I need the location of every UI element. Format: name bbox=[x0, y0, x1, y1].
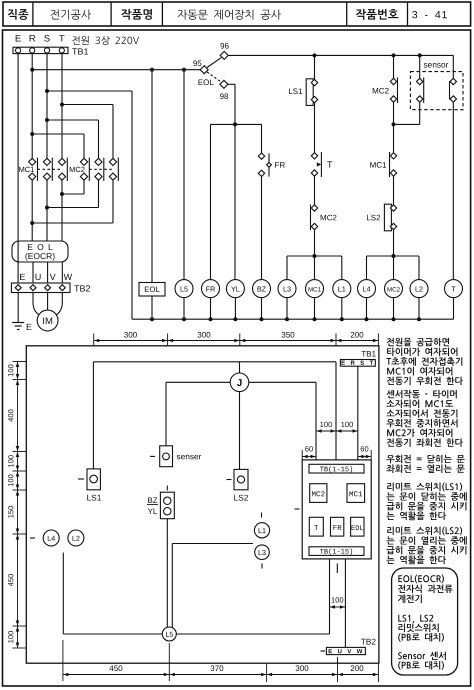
wire L1 to rail bbox=[341, 298, 343, 320]
node MC2 coil junction bbox=[392, 254, 396, 258]
buzzer/lamp unit BZ YL (panel) bbox=[160, 486, 174, 519]
wire sensor parallel link bbox=[394, 123, 420, 125]
wire L3 drop bbox=[286, 256, 288, 280]
limit switch LS2 (panel) bbox=[227, 469, 249, 489]
node rail junction FR bbox=[209, 317, 213, 321]
relay module EOL (panel) bbox=[351, 517, 364, 536]
buzzer BZ (control row) bbox=[253, 280, 271, 298]
label TB1 (panel) bbox=[361, 351, 375, 357]
relay EOL block (control row) bbox=[139, 70, 165, 296]
node rail junction MC1 bbox=[313, 317, 317, 321]
label senser bbox=[177, 455, 201, 460]
wire sensor contact upper bbox=[419, 55, 421, 78]
wire L3 to rail bbox=[286, 298, 288, 320]
wire MC1 pole3 output down bbox=[61, 180, 63, 241]
induction motor IM bbox=[37, 310, 58, 331]
coil MC1 (control row) bbox=[306, 280, 324, 298]
panel enclosure outline bbox=[26, 346, 379, 663]
wire control feed from R at y=69.7 bbox=[32, 69, 200, 71]
wire branch MC2 upper bbox=[393, 55, 395, 78]
label MC2-a contact bbox=[373, 88, 389, 94]
terminal block TB2 bbox=[11, 283, 70, 293]
overload relay EOL (EOCR) bbox=[12, 241, 68, 262]
sensor dashed box bbox=[410, 72, 463, 110]
contactor MC2 pole 1 bbox=[80, 158, 89, 181]
wire panel top bus bbox=[93, 361, 336, 363]
lamp L2 (control row) bbox=[410, 280, 428, 298]
limit switch LS2 contact bbox=[384, 204, 396, 231]
label T contact bbox=[327, 161, 332, 167]
wire E phase down (TB1-E to TB2-E) bbox=[17, 54, 19, 283]
wire J to senser bbox=[166, 382, 230, 446]
label LS1 (panel) bbox=[87, 495, 101, 501]
label E at ground bbox=[27, 324, 32, 330]
label MC1 contactor bbox=[19, 167, 34, 172]
wire J to TB block bbox=[249, 382, 316, 460]
wire BZ to rail bbox=[261, 298, 263, 320]
ground symbol bbox=[12, 323, 24, 330]
wire BZ-YL to L5 bbox=[166, 519, 168, 628]
title block header table frame bbox=[3, 2, 471, 26]
coil MC2 (control row) bbox=[385, 280, 403, 298]
notes text column (operation description) bbox=[386, 338, 466, 565]
header cell label 직종 bbox=[8, 9, 29, 20]
EOL switch arm 95-96 bbox=[207, 58, 221, 68]
node rail junction BZ bbox=[260, 317, 264, 321]
wire MC1 pole2 output down bbox=[46, 180, 48, 241]
node crossover T-output bbox=[60, 192, 64, 196]
label TB2 (panel) bbox=[361, 639, 376, 645]
lamp L1 (panel) bbox=[254, 513, 269, 538]
EOL trip contact 95 bbox=[200, 66, 208, 74]
coil T (control row) bbox=[445, 280, 463, 298]
wire L4 drop bbox=[366, 256, 368, 280]
limit switch LS1 contact bbox=[306, 79, 318, 106]
terminal labels E R S T of TB1 bbox=[16, 35, 65, 42]
wire ERST to TB block bbox=[357, 366, 359, 460]
wire L1 drop bbox=[341, 256, 343, 280]
EOL trip contact 98 bbox=[220, 80, 228, 88]
contactor module MC2 (panel) bbox=[310, 484, 327, 503]
node top rail sensor tap bbox=[418, 53, 422, 57]
contactor MC2 pole 3 bbox=[109, 158, 118, 181]
wire control return from S bbox=[47, 91, 132, 319]
wire L4 to rail bbox=[366, 298, 368, 320]
wire MC2a to MC1b bbox=[393, 103, 395, 153]
dimension 100/100 above TB block bbox=[316, 422, 358, 433]
node rail junction L1 bbox=[340, 317, 344, 321]
node R tap bbox=[30, 132, 34, 136]
node L5 lamp drop tap bbox=[182, 68, 186, 72]
node FR bus junction bbox=[233, 122, 237, 126]
lamp L2 (panel) bbox=[68, 530, 84, 546]
wire MC1b to LS2 bbox=[393, 177, 395, 205]
wire S phase to MC2 pole2 bbox=[47, 120, 99, 158]
wire TB2-E to ground bbox=[17, 293, 19, 323]
wire T to rail bbox=[453, 298, 455, 320]
wire R phase down (TB1-R to MC1 pole1) bbox=[31, 54, 33, 159]
lamp L3 (control row) bbox=[278, 280, 296, 298]
legend box outline bbox=[392, 568, 458, 675]
tick left of TB block bbox=[295, 508, 300, 510]
wire EOL block to rail bbox=[151, 296, 153, 319]
wire MC1 pole1 output down bbox=[31, 180, 33, 241]
sensor unit senser (panel) bbox=[150, 446, 173, 467]
wire L3 to L5 bbox=[172, 544, 253, 629]
label 전원 3상 220V bbox=[72, 36, 139, 45]
label BZ bbox=[147, 497, 158, 504]
wire sensor right terminal upper bbox=[452, 55, 454, 78]
dimension 60 right above TB block bbox=[358, 446, 371, 460]
mechanical linkage MC1 bbox=[38, 168, 63, 170]
dimension line bottom of panel (450/370/300/200) bbox=[63, 640, 379, 682]
node MC1 coil junction bbox=[313, 254, 317, 258]
node rail junction L2 bbox=[417, 317, 421, 321]
lamp L1 (control row) bbox=[333, 280, 351, 298]
node crossover R-output bbox=[30, 221, 34, 225]
wire 98 to FR bus bbox=[228, 84, 235, 124]
wire bus to TB block bbox=[335, 362, 337, 460]
header cell label 작품명 bbox=[121, 9, 152, 20]
contactor module MC1 (panel) bbox=[347, 484, 365, 503]
label LS1 contact bbox=[289, 88, 302, 94]
node crossover S-output bbox=[45, 206, 49, 210]
wire L2 to rail bbox=[418, 298, 420, 320]
wire TB2-V to motor bbox=[47, 293, 49, 311]
wire sensor contact lower bbox=[419, 103, 421, 125]
label strip TB(1-15) bottom bbox=[309, 547, 364, 556]
wire L5 feed bbox=[183, 70, 185, 280]
wire YL lamp drop bbox=[234, 124, 236, 279]
terminal block assembly TB(1-15) bbox=[302, 460, 371, 559]
node sensor parallel junction bbox=[392, 122, 396, 126]
dimension 60 left above TB block bbox=[302, 446, 316, 460]
wire FR contact to BZ bbox=[261, 177, 263, 280]
node rail junction L3 bbox=[285, 317, 289, 321]
wire top rail from 96 bbox=[228, 54, 453, 56]
wire MC2 to rail bbox=[393, 298, 395, 320]
terminal block TB1 bbox=[13, 47, 68, 53]
wire TB2-W to motor bbox=[55, 293, 62, 316]
node S control return tap bbox=[45, 89, 49, 93]
label LS2 contact bbox=[367, 215, 380, 221]
wire T contact to MC2b bbox=[314, 177, 316, 205]
node R control tap bbox=[30, 68, 34, 72]
lamp L5 (panel) bbox=[162, 627, 176, 641]
legend box text bbox=[398, 575, 453, 670]
interlock contact MC2-b bbox=[311, 205, 318, 231]
contactor MC1 pole 2 bbox=[43, 158, 52, 181]
lamp L5 (control row) bbox=[175, 280, 193, 298]
label FR contact bbox=[275, 162, 285, 168]
flicker contact FR bbox=[258, 153, 271, 177]
wire T phase to MC2 pole3 bbox=[62, 105, 113, 159]
timer contact T bbox=[311, 152, 321, 177]
wire YL to rail bbox=[234, 298, 236, 320]
junction box J bbox=[230, 362, 249, 392]
wire FR to rail bbox=[210, 298, 212, 320]
wire lamps to bottom bus bbox=[63, 553, 162, 635]
label TB1 bbox=[72, 48, 88, 54]
label TB2 bbox=[74, 285, 90, 291]
wire bottom bus to TB block bbox=[176, 559, 329, 634]
terminal strip E R S T (panel) bbox=[340, 360, 375, 367]
terminal labels E U V W of TB2 bbox=[20, 274, 72, 280]
node T tap bbox=[60, 103, 64, 107]
label 95 bbox=[193, 60, 201, 66]
label strip TB(1-15) top bbox=[309, 464, 364, 473]
wire MC2 pole3 output crossover bbox=[32, 180, 113, 223]
wire TB2-U to motor bbox=[33, 293, 41, 316]
coil FR (control row) bbox=[202, 280, 220, 298]
tick below TB block bbox=[336, 564, 338, 574]
dimension 100 below TB block bbox=[330, 597, 346, 609]
EOL switch arm 95-98 dashed bbox=[207, 72, 221, 82]
label sensor bbox=[424, 63, 448, 68]
wire L2 drop bbox=[418, 256, 420, 280]
wire T phase down (TB1-T to MC1 pole3) bbox=[61, 54, 63, 159]
label MC2 contactor bbox=[70, 167, 85, 172]
wire branch MC1 upper bbox=[314, 55, 316, 79]
wire MC2b to junction bbox=[314, 230, 316, 280]
contactor MC1 pole 3 bbox=[58, 158, 67, 181]
dimension column left of panel (100/400/100/100/150/450/100) bbox=[8, 362, 26, 649]
label MC1-b contact bbox=[370, 162, 386, 168]
contactor MC1 pole 1 bbox=[29, 158, 38, 181]
wire J to LS2 (panel) bbox=[239, 392, 241, 470]
wire EOL to TB2 W bbox=[61, 262, 63, 283]
node rail junction MC2 bbox=[392, 317, 396, 321]
lamp L4 (control row) bbox=[358, 280, 376, 298]
node EOL relay drop tap bbox=[150, 68, 154, 72]
wire sensor right to T coil bbox=[452, 103, 454, 280]
label MC2-b contact bbox=[321, 215, 337, 221]
dimension line top of panel (300/300/350/200) bbox=[94, 332, 379, 346]
wire LS1 drop (panel) bbox=[92, 362, 94, 469]
wire FR coil drop bbox=[210, 124, 212, 279]
limit switch LS1 (panel) bbox=[78, 469, 100, 490]
terminal strip E U V W (panel) bbox=[321, 647, 366, 654]
contactor MC2 pole 2 bbox=[95, 158, 104, 181]
flicker module FR (panel) bbox=[331, 517, 344, 536]
label EOL switch bbox=[198, 79, 213, 85]
wire MC1 to rail bbox=[314, 298, 316, 320]
wire L5 to rail bbox=[183, 298, 185, 320]
sensor contact bbox=[417, 78, 424, 104]
lamp YL (control row) bbox=[226, 280, 244, 298]
label LS2 (panel) bbox=[234, 495, 248, 501]
wire S phase down (TB1-S to MC1 pole2) bbox=[46, 54, 48, 159]
wire FR bus horizontal bbox=[211, 123, 262, 125]
timer module T (panel) bbox=[309, 517, 323, 536]
header cell label 작품번호 bbox=[356, 9, 398, 20]
aux contact MC2-a bbox=[390, 78, 397, 104]
label 96 bbox=[220, 43, 228, 49]
mechanical linkage MC2 bbox=[89, 168, 113, 170]
interlock contact MC1-b bbox=[390, 152, 397, 177]
node rail junction YL bbox=[233, 317, 237, 321]
wire R phase to MC2 pole1 bbox=[32, 134, 84, 158]
node rail junction L5 bbox=[182, 317, 186, 321]
sensor right terminals bbox=[450, 78, 457, 102]
wire EOL to TB2 U bbox=[32, 262, 34, 283]
EOL trip contact 96 bbox=[220, 51, 228, 59]
wire MC2 pole1 output crossover bbox=[62, 180, 84, 194]
label YL bbox=[148, 508, 157, 514]
wire MC2 pole2 output crossover bbox=[47, 180, 99, 207]
lamp L4 (panel) bbox=[30, 530, 59, 546]
wire LS2 to junction bbox=[393, 230, 395, 280]
node top rail MC2-branch tap bbox=[392, 53, 396, 57]
node top rail MC1-branch tap bbox=[313, 53, 317, 57]
node rail junction EOL bbox=[150, 317, 154, 321]
header cell value 3 - 41 bbox=[412, 11, 447, 18]
lamp L3 (panel) bbox=[255, 545, 270, 569]
wire LS1 to T contact bbox=[314, 103, 316, 152]
node S tap bbox=[45, 118, 49, 122]
wire TB block to TB2 strip bbox=[344, 559, 346, 648]
wire control bottom rail bbox=[132, 318, 454, 320]
header cell value 자동문 제어장치 공사 bbox=[178, 10, 281, 20]
wire L4-MC2-L2 bus bbox=[367, 255, 420, 257]
wire FR contact drop bbox=[261, 124, 263, 152]
label 98 bbox=[220, 93, 228, 99]
node rail junction L4 bbox=[365, 317, 369, 321]
wire L3-MC1-L1 bus bbox=[287, 255, 342, 257]
wire EOL to TB2 V bbox=[47, 262, 49, 283]
header cell value 전기공사 bbox=[51, 10, 91, 20]
